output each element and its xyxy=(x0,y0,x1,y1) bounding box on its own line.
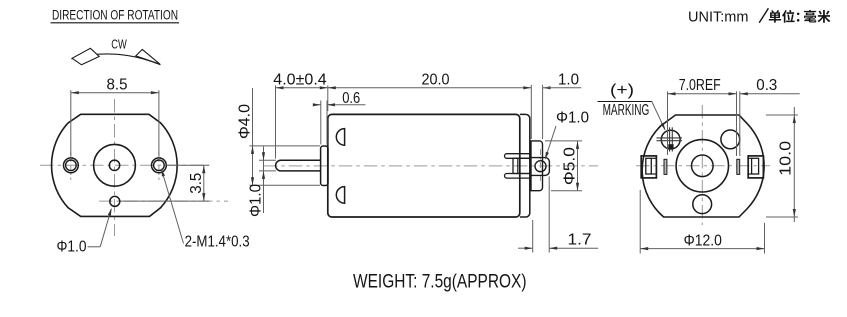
terminal bracket xyxy=(513,158,530,173)
svg-text:0.3: 0.3 xyxy=(756,77,777,94)
front view outline xyxy=(52,114,178,216)
CW rotation arrow xyxy=(72,37,161,65)
dimension 0.6 xyxy=(313,90,366,144)
top right hole xyxy=(721,130,740,149)
leader and label 2-M1.4*0.3 xyxy=(161,168,249,250)
svg-text:Φ1.0: Φ1.0 xyxy=(247,184,264,217)
dimension Φ5.0 xyxy=(545,141,582,191)
dimension 20.0 xyxy=(328,72,532,139)
rear view outline xyxy=(642,115,764,217)
cap plate Φ5.0 xyxy=(531,141,543,191)
svg-text:DIRECTION OF ROTATION: DIRECTION OF ROTATION xyxy=(52,8,178,23)
bottom hole xyxy=(110,196,120,206)
dimension 1.7 xyxy=(518,177,598,253)
svg-text:Φ12.0: Φ12.0 xyxy=(684,232,722,249)
eyelet hole Φ1.0 xyxy=(535,161,546,172)
leader Φ1.0 (eyelet hole) xyxy=(545,110,589,160)
front boss circle xyxy=(94,144,136,186)
dimension 8.5 xyxy=(71,76,159,156)
svg-text:MARKING: MARKING xyxy=(603,102,650,119)
front shaft circle xyxy=(109,160,119,170)
dimension 7.0REF xyxy=(668,77,737,156)
dimension 4.0±0.4 xyxy=(273,72,328,159)
dimension 10.0 xyxy=(766,107,798,222)
front view centerlines xyxy=(40,164,209,166)
svg-text:Φ1.0: Φ1.0 xyxy=(57,239,87,256)
title DIRECTION OF ROTATION xyxy=(51,8,180,23)
upper vent hole xyxy=(336,129,344,146)
end bell xyxy=(520,114,530,217)
eyelet tab xyxy=(531,158,549,176)
svg-text:4.0±0.4: 4.0±0.4 xyxy=(273,72,327,89)
svg-text:1.7: 1.7 xyxy=(568,232,592,249)
svg-text:UNIT:mm: UNIT:mm xyxy=(688,10,748,26)
svg-text:Φ5.0: Φ5.0 xyxy=(561,147,578,185)
terminal prongs (side view) xyxy=(505,154,530,159)
side view centerline xyxy=(264,165,598,167)
svg-text:8.5: 8.5 xyxy=(107,76,128,93)
right terminal (rear) xyxy=(747,156,763,178)
dimension 3.5 xyxy=(120,165,209,201)
right screw hole 2-M1.4 xyxy=(152,158,167,173)
marking hole (+) with cross xyxy=(657,127,683,151)
svg-text:Φ4.0: Φ4.0 xyxy=(236,104,253,139)
bottom hole (rear) xyxy=(693,195,712,214)
svg-text:0.6: 0.6 xyxy=(342,90,360,107)
svg-text:7.0REF: 7.0REF xyxy=(679,77,721,94)
left screw hole 2-M1.4 xyxy=(64,158,79,173)
rear boss circle xyxy=(676,140,728,192)
shaft bushing xyxy=(321,146,328,186)
svg-text:20.0: 20.0 xyxy=(422,72,450,89)
right brush slot xyxy=(737,159,740,174)
label (+) MARKING with leader xyxy=(598,82,666,130)
svg-text:3.5: 3.5 xyxy=(188,173,205,194)
rear shaft hole xyxy=(692,155,714,177)
left brush slot xyxy=(664,159,667,174)
svg-text:CW: CW xyxy=(111,37,127,52)
dimension Φ12.0 xyxy=(640,190,764,254)
dimension Φ4.0 (bushing) xyxy=(236,88,320,185)
svg-text:10.0: 10.0 xyxy=(778,141,795,176)
rear view centerlines xyxy=(636,165,770,167)
left terminal (rear) xyxy=(641,156,656,178)
dimension Φ1.0 (shaft) xyxy=(247,147,276,218)
shaft xyxy=(276,160,321,171)
motor body xyxy=(328,114,520,217)
unit note UNIT:mm / 单位: 毫米 xyxy=(688,8,830,25)
svg-text:1.0: 1.0 xyxy=(558,72,579,89)
svg-text:(+): (+) xyxy=(610,82,634,99)
leader and label Φ1.0 (front small hole) xyxy=(57,208,112,256)
lower vent hole xyxy=(336,187,344,204)
svg-text:WEIGHT: 7.5g(APPROX): WEIGHT: 7.5g(APPROX) xyxy=(353,272,527,293)
svg-text:2-M1.4*0.3: 2-M1.4*0.3 xyxy=(185,233,250,250)
dimension 1.0 (plate) xyxy=(543,72,582,139)
dimension 0.3 xyxy=(740,77,800,156)
svg-text:Φ1.0: Φ1.0 xyxy=(556,110,589,127)
